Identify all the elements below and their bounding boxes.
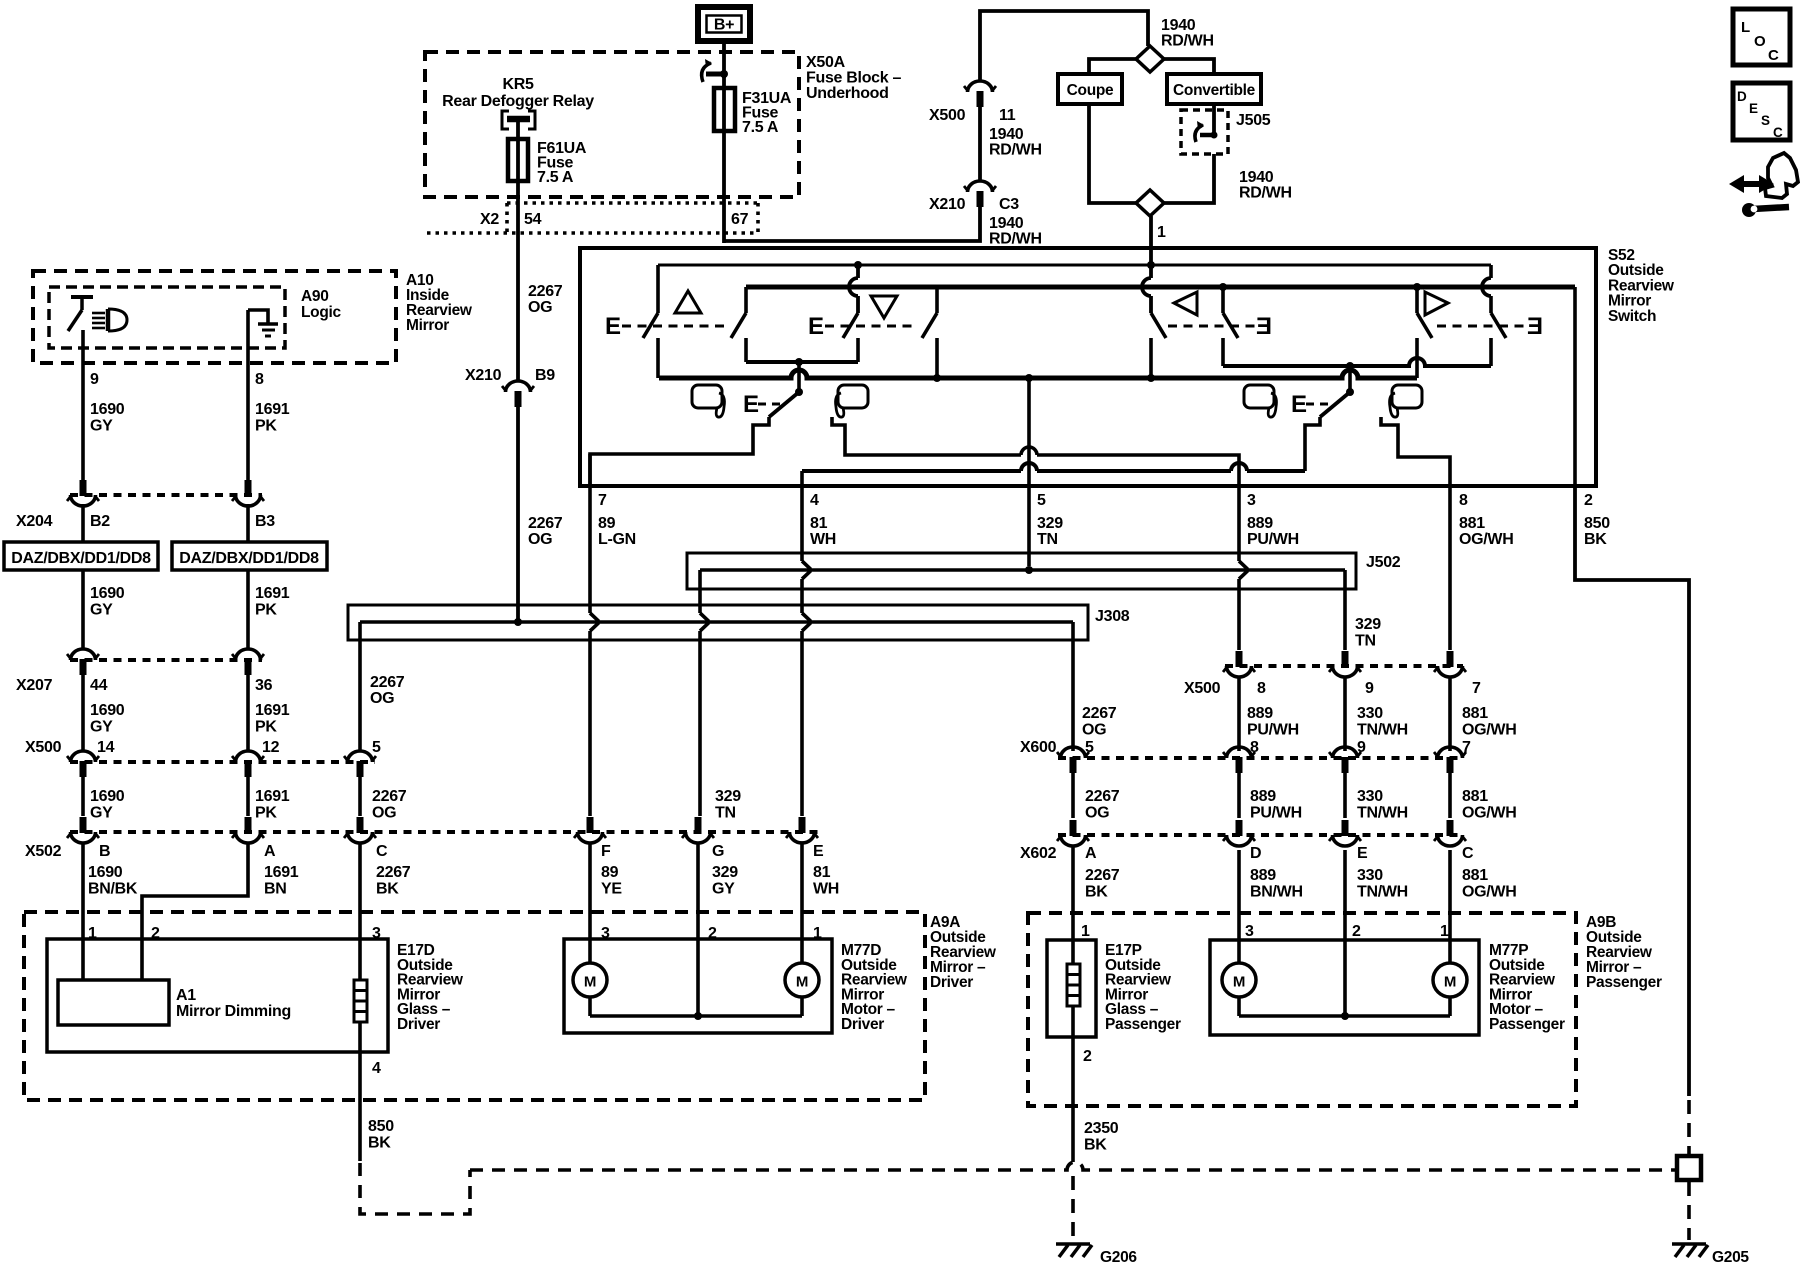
svg-text:GY: GY — [90, 805, 113, 822]
svg-text:E: E — [1749, 101, 1758, 116]
wire: X502 B into mirror glass driver — [81, 843, 85, 980]
wire: diamond to Coupe branch — [1089, 59, 1137, 74]
switch S52 box — [580, 248, 1596, 486]
svg-text:2267: 2267 — [1082, 705, 1117, 722]
mirror glass E17P box — [1047, 940, 1096, 1037]
svg-text:2: 2 — [1083, 1048, 1092, 1065]
svg-text:GY: GY — [90, 418, 113, 435]
connector X502 row — [70, 830, 818, 834]
svg-text:X502: X502 — [25, 843, 62, 860]
triangle right — [1425, 292, 1448, 315]
svg-text:Passenger: Passenger — [1105, 1016, 1181, 1033]
svg-text:KR5: KR5 — [502, 76, 534, 93]
svg-text:7: 7 — [1462, 739, 1471, 756]
svg-text:OG/WH: OG/WH — [1459, 531, 1514, 548]
svg-text:BN/WH: BN/WH — [1250, 884, 1303, 901]
svg-text:RD/WH: RD/WH — [989, 142, 1042, 159]
svg-text:OG/WH: OG/WH — [1462, 884, 1517, 901]
wire 1690 GY below option box — [81, 570, 85, 649]
svg-text:7.5 A: 7.5 A — [742, 119, 779, 136]
svg-text:BK: BK — [1084, 1137, 1107, 1154]
svg-text:1940: 1940 — [1161, 17, 1196, 34]
driver mirror icon left — [692, 385, 722, 408]
wire: A90 pin 8 — [246, 310, 250, 480]
wire: splice J502 right leg 329 TN to X500 9 — [1343, 570, 1347, 650]
fuse block X50A dashed box — [425, 52, 799, 197]
wire 330 TN/WH X600 to X602 — [1343, 773, 1347, 818]
connector X602 row — [1058, 833, 1463, 837]
connector X500 left row — [70, 760, 375, 764]
svg-text:BN/BK: BN/BK — [88, 881, 138, 898]
svg-text:BK: BK — [1085, 884, 1108, 901]
svg-text:1691: 1691 — [255, 788, 290, 805]
svg-text:330: 330 — [1357, 867, 1383, 884]
wire: X502 C into mirror glass driver — [358, 843, 362, 980]
wire: pin 4 down from output line — [800, 471, 804, 486]
svg-text:330: 330 — [1357, 788, 1383, 805]
svg-text:DAZ/DBX/DD1/DD8: DAZ/DBX/DD1/DD8 — [11, 550, 151, 567]
svg-text:1690: 1690 — [90, 702, 125, 719]
wire: B+ feed down to relay/fuse — [722, 40, 726, 78]
wire 889 PU/WH X600 to X602 — [1237, 773, 1241, 818]
svg-text:J505: J505 — [1236, 112, 1271, 129]
svg-text:Passenger: Passenger — [1586, 974, 1662, 991]
legend box LOC — [1733, 9, 1790, 65]
svg-text:A1: A1 — [176, 987, 196, 1004]
svg-text:OG: OG — [1085, 805, 1109, 822]
connector X500 right row — [1225, 664, 1463, 668]
svg-text:1691: 1691 — [255, 401, 290, 418]
diamond junction top — [1136, 46, 1164, 72]
wire: switch pin 2 850 BK to right edge — [1575, 486, 1689, 1096]
passenger up/down common tie bar — [1223, 358, 1491, 366]
svg-text:4: 4 — [372, 1060, 381, 1077]
svg-text:WH: WH — [813, 881, 839, 898]
svg-text:881: 881 — [1462, 788, 1488, 805]
svg-text:OG: OG — [372, 805, 396, 822]
svg-text:2267: 2267 — [372, 788, 407, 805]
svg-text:1691: 1691 — [255, 702, 290, 719]
svg-text:B: B — [99, 843, 110, 860]
motor assembly M77D box — [564, 939, 832, 1033]
svg-text:2: 2 — [1584, 492, 1593, 509]
wire: switch pin 8 down to X500 7 — [1448, 486, 1452, 650]
svg-text:1690: 1690 — [90, 585, 125, 602]
svg-text:7: 7 — [598, 492, 607, 509]
svg-text:C: C — [376, 843, 388, 860]
wire: Coupe down to diamond bottom — [1089, 104, 1137, 203]
motor M left passenger — [1222, 963, 1256, 997]
svg-text:B3: B3 — [255, 513, 275, 530]
svg-text:Switch: Switch — [1608, 308, 1656, 325]
svg-text:1690: 1690 — [90, 788, 125, 805]
wire: Convertible down into splice J505 — [1212, 104, 1216, 137]
wire: X502 E into motor driver pin 1 — [800, 843, 804, 963]
svg-text:X210: X210 — [465, 367, 502, 384]
svg-text:881: 881 — [1462, 705, 1488, 722]
svg-text:329: 329 — [715, 788, 741, 805]
svg-text:OG/WH: OG/WH — [1462, 805, 1517, 822]
wire 881 OG/WH X600 to X602 — [1448, 773, 1452, 818]
connector row X2 dotted box — [507, 201, 758, 205]
connector X204 row — [70, 493, 262, 497]
svg-text:3: 3 — [1245, 923, 1254, 940]
wire: E17D pin 4 850 BK — [358, 1022, 362, 1161]
svg-text:Driver: Driver — [841, 1016, 884, 1033]
svg-text:X600: X600 — [1020, 739, 1057, 756]
svg-text:Driver: Driver — [930, 974, 973, 991]
option box Coupe — [1058, 74, 1122, 104]
svg-text:D: D — [1250, 845, 1261, 862]
svg-text:7: 7 — [1472, 680, 1481, 697]
wire 2267 OG from X2 54 to X210 B9 — [516, 237, 520, 381]
svg-text:67: 67 — [731, 211, 749, 228]
svg-text:2: 2 — [708, 925, 717, 942]
wire: switch pin 7 down to X502 F — [588, 454, 592, 613]
battery feed terminal B+ — [698, 7, 750, 41]
svg-text:2267: 2267 — [1085, 867, 1120, 884]
passenger motor common bus — [1237, 997, 1241, 1016]
E17P heater connector symbol — [1067, 964, 1080, 1006]
svg-text:E: E — [813, 843, 824, 860]
svg-text:1690: 1690 — [88, 864, 123, 881]
svg-text:E: E — [808, 313, 824, 340]
svg-text:2267: 2267 — [1085, 788, 1120, 805]
svg-text:TN/WH: TN/WH — [1357, 805, 1408, 822]
svg-text:F: F — [601, 843, 611, 860]
svg-text:1691: 1691 — [264, 864, 299, 881]
svg-text:1: 1 — [1081, 923, 1090, 940]
svg-text:3: 3 — [601, 925, 610, 942]
svg-text:E: E — [1256, 313, 1272, 340]
wire: splice J308 right leg 2267 OG to X600 — [1071, 622, 1075, 751]
svg-text:X50A: X50A — [806, 54, 846, 71]
svg-text:OG/WH: OG/WH — [1462, 722, 1517, 739]
svg-text:PU/WH: PU/WH — [1247, 722, 1299, 739]
svg-text:2350: 2350 — [1084, 1120, 1119, 1137]
svg-text:889: 889 — [1247, 515, 1273, 532]
svg-text:OG: OG — [1082, 722, 1106, 739]
ground G206 symbol — [1056, 1242, 1090, 1246]
svg-text:M: M — [584, 974, 596, 991]
diamond junction bottom — [1136, 190, 1164, 216]
motor M right driver — [785, 963, 819, 997]
legend arrow and wrench icon — [1736, 181, 1766, 187]
svg-text:PK: PK — [255, 602, 277, 619]
svg-text:5: 5 — [372, 739, 381, 756]
svg-text:G205: G205 — [1712, 1249, 1749, 1266]
svg-text:X210: X210 — [929, 196, 966, 213]
switch cell down: right contact from thick rail — [935, 287, 939, 313]
svg-text:329: 329 — [1037, 515, 1063, 532]
svg-text:DAZ/DBX/DD1/DD8: DAZ/DBX/DD1/DD8 — [179, 550, 319, 567]
dashed ground drop below splice — [1687, 1182, 1691, 1240]
svg-text:X2: X2 — [480, 211, 499, 228]
svg-text:81: 81 — [813, 864, 831, 881]
svg-text:9: 9 — [90, 371, 99, 388]
svg-text:OG: OG — [528, 299, 552, 316]
splice pack J502 internal bus 329 — [700, 568, 1345, 572]
svg-text:Coupe: Coupe — [1067, 82, 1114, 99]
wire: X602 E into motor passenger pin 2 — [1343, 850, 1347, 1016]
svg-text:8: 8 — [1250, 739, 1259, 756]
wire 1691 PK to X500 — [246, 675, 250, 752]
wire: relay KR5 through fuse F61UA to X2 pin 54 — [516, 140, 520, 237]
svg-text:Mirror: Mirror — [406, 317, 449, 334]
fuse F31UA — [714, 88, 735, 131]
svg-text:881: 881 — [1459, 515, 1485, 532]
svg-text:11: 11 — [999, 107, 1016, 124]
passenger selector left contact to pin 4 line — [1305, 417, 1320, 471]
driver selector left contact to pin 7 — [590, 417, 769, 486]
wire 2267 OG X600 to X602 — [1071, 773, 1075, 818]
mirror glass E17D box — [47, 939, 388, 1052]
wire: X502 F into motor driver pin 3 — [588, 843, 592, 963]
wire 1 junction with upper rail — [1147, 261, 1155, 269]
wire: X500 11 up and over to diamond — [980, 11, 1148, 81]
svg-text:E: E — [743, 391, 759, 418]
relay contact hook above fuse F31UA — [706, 72, 726, 77]
svg-text:1940: 1940 — [989, 215, 1024, 232]
label 881 OG/WH — [1448, 676, 1452, 751]
svg-text:GY: GY — [90, 602, 113, 619]
wire: X502 A into mirror glass driver — [142, 843, 248, 980]
switch cell right: right contact from upper rail — [1489, 265, 1493, 278]
svg-text:L: L — [1741, 19, 1750, 36]
wire 1690 GY to X500 — [81, 675, 85, 752]
svg-text:C: C — [1768, 47, 1779, 64]
wire: X204 B3 to option box — [246, 504, 250, 542]
svg-text:X500: X500 — [929, 107, 966, 124]
svg-text:1691: 1691 — [255, 585, 290, 602]
svg-text:89: 89 — [601, 864, 619, 881]
wire: hook to fuse F31UA to X2 pin 67 — [722, 74, 726, 243]
svg-text:YE: YE — [601, 881, 622, 898]
A90 ground icon — [248, 310, 268, 323]
svg-text:2267: 2267 — [370, 674, 405, 691]
wire 2267 OG from B9 to splice J308 — [516, 407, 520, 622]
wire 1691 PK to X502 — [246, 777, 250, 816]
svg-text:O: O — [1754, 33, 1766, 50]
svg-text:8: 8 — [1459, 492, 1468, 509]
wire: 67 elbow right to X210 column — [724, 207, 980, 241]
svg-text:850: 850 — [1584, 515, 1610, 532]
svg-text:5: 5 — [1085, 739, 1094, 756]
svg-text:2267: 2267 — [376, 864, 411, 881]
svg-text:PU/WH: PU/WH — [1247, 531, 1299, 548]
triangle down — [871, 296, 897, 318]
connector X207 row — [70, 658, 262, 662]
passenger mirror icon left — [1244, 385, 1274, 408]
svg-text:J502: J502 — [1366, 554, 1401, 571]
wire: X602 C into motor passenger pin 1 — [1448, 850, 1452, 963]
svg-text:BK: BK — [376, 881, 399, 898]
wire: X602 A into mirror glass passenger — [1071, 846, 1075, 964]
svg-text:PK: PK — [255, 805, 277, 822]
mirror dimming element A1 — [58, 980, 169, 1025]
wire: X502 G into motor driver pin 2 — [696, 843, 700, 1016]
wire: diamond to Convertible branch — [1164, 59, 1214, 74]
svg-text:1: 1 — [813, 925, 822, 942]
svg-text:850: 850 — [368, 1118, 394, 1135]
svg-text:BK: BK — [368, 1135, 391, 1152]
wire: switch pin 5 from common rail down to splice J502 — [1025, 374, 1033, 382]
inline splice J505 dashed box — [1181, 110, 1228, 154]
svg-text:12: 12 — [262, 739, 280, 756]
svg-text:889: 889 — [1247, 705, 1273, 722]
connector X600 row — [1058, 756, 1463, 760]
svg-text:X500: X500 — [1184, 680, 1221, 697]
svg-text:Fuse Block –: Fuse Block – — [806, 70, 902, 87]
svg-text:E: E — [1527, 313, 1543, 340]
svg-text:X207: X207 — [16, 677, 53, 694]
svg-text:54: 54 — [524, 211, 542, 228]
svg-text:Rear Defogger Relay: Rear Defogger Relay — [442, 93, 594, 110]
label 330 TN/WH — [1343, 676, 1347, 751]
svg-text:1690: 1690 — [90, 401, 125, 418]
svg-text:J308: J308 — [1095, 608, 1130, 625]
svg-text:1940: 1940 — [989, 126, 1024, 143]
switch cell up: left contact — [656, 265, 660, 313]
driver selector blade — [769, 392, 799, 417]
svg-text:GY: GY — [712, 881, 735, 898]
svg-text:8: 8 — [1257, 680, 1266, 697]
svg-text:329: 329 — [1355, 616, 1381, 633]
svg-text:A90: A90 — [301, 288, 329, 305]
triangle left — [1174, 292, 1197, 315]
switch common bottom rail — [659, 370, 1417, 378]
splice pack J308 internal bus 2267 — [360, 620, 1073, 624]
splice J505 hook symbol — [1200, 133, 1216, 138]
svg-text:7.5 A: 7.5 A — [537, 169, 574, 186]
svg-text:C: C — [1462, 845, 1474, 862]
splice pack J502 box — [687, 553, 1356, 589]
connector X210 pin C3 — [968, 181, 993, 192]
svg-text:889: 889 — [1250, 788, 1276, 805]
switch cell down: left contact from upper rail — [854, 261, 862, 269]
dashed 850 BK ground path from driver mirror — [360, 1163, 470, 1214]
wire: switch pin 3 down to X500 8 — [1237, 486, 1241, 561]
svg-text:D: D — [1737, 89, 1747, 104]
wire 1 from diamond into switch S52 — [1149, 216, 1153, 267]
switch cell right: left contact from thick rail — [1413, 283, 1421, 291]
svg-text:5: 5 — [1037, 492, 1046, 509]
option box DAZ/DBX/DD1/DD8 left — [4, 542, 158, 570]
svg-text:PU/WH: PU/WH — [1250, 805, 1302, 822]
E17D heater connector symbol — [354, 980, 367, 1022]
svg-text:C: C — [1773, 125, 1783, 140]
passenger mirror icon right — [1392, 385, 1422, 408]
svg-text:OG: OG — [370, 690, 394, 707]
svg-text:Mirror Dimming: Mirror Dimming — [176, 1003, 291, 1020]
passenger selector blade — [1320, 392, 1350, 417]
svg-text:9: 9 — [1365, 680, 1374, 697]
svg-text:TN/WH: TN/WH — [1357, 884, 1408, 901]
svg-text:81: 81 — [810, 515, 828, 532]
svg-text:1: 1 — [1157, 224, 1166, 241]
svg-text:330: 330 — [1357, 705, 1383, 722]
wire: X602 D into motor passenger pin 3 — [1237, 850, 1241, 963]
svg-text:TN: TN — [1037, 531, 1058, 548]
connector X210 pin B9 — [506, 381, 531, 392]
svg-text:B+: B+ — [714, 17, 734, 34]
svg-text:X204: X204 — [16, 513, 53, 530]
switch feed rail upper — [658, 264, 1491, 267]
svg-text:BK: BK — [1584, 531, 1607, 548]
svg-text:329: 329 — [712, 864, 738, 881]
svg-text:Underhood: Underhood — [806, 85, 889, 102]
dashed ground lead to G205 — [1687, 1100, 1691, 1154]
switch cell up: right contact from thick rail — [744, 287, 748, 313]
switch feed rail lower thick — [746, 285, 1575, 290]
svg-text:A: A — [1085, 845, 1097, 862]
driver outside mirror A9A dashed box — [24, 912, 925, 1100]
svg-text:8: 8 — [255, 371, 264, 388]
driver selector pivot wire — [797, 362, 801, 392]
switch cell left: right contact from thick rail — [1219, 283, 1227, 291]
switch cell right: E linkage mirrored — [1437, 325, 1526, 328]
svg-text:E: E — [1291, 391, 1307, 418]
svg-text:G206: G206 — [1100, 1249, 1137, 1266]
splice pack J308 box — [348, 605, 1088, 640]
wire 2267 OG to X502 — [358, 777, 362, 816]
svg-text:1: 1 — [1440, 923, 1449, 940]
svg-text:TN: TN — [1355, 633, 1376, 650]
driver selector right contact to pin 3 — [832, 417, 1021, 455]
svg-text:2: 2 — [1352, 923, 1361, 940]
wire: E17P pin 2 2350 BK — [1071, 1006, 1075, 1037]
svg-text:44: 44 — [90, 677, 108, 694]
svg-text:2267: 2267 — [528, 283, 563, 300]
svg-text:M: M — [796, 974, 808, 991]
wire: switch pin 4 down to X502 E — [800, 486, 804, 561]
svg-text:G: G — [712, 843, 724, 860]
svg-text:RD/WH: RD/WH — [989, 231, 1042, 248]
svg-text:E: E — [605, 313, 621, 340]
fuse F61UA — [508, 139, 528, 181]
svg-text:4: 4 — [810, 492, 819, 509]
ground G205 symbol — [1672, 1242, 1706, 1246]
svg-text:2267: 2267 — [528, 515, 563, 532]
svg-text:X500: X500 — [25, 739, 62, 756]
logic module A90 dashed box — [49, 287, 285, 348]
ground splice box at G205 — [1677, 1156, 1701, 1180]
svg-text:BN: BN — [264, 881, 287, 898]
svg-text:WH: WH — [810, 531, 836, 548]
svg-text:X602: X602 — [1020, 845, 1057, 862]
relay KR5 contact symbol — [502, 111, 509, 129]
wire 1691 PK below option box — [246, 570, 250, 649]
svg-text:89: 89 — [598, 515, 616, 532]
connector X500 pin 11 — [968, 81, 993, 92]
motor assembly M77P box — [1210, 940, 1479, 1035]
wire: splice J308 left leg down to X500 5 — [358, 622, 362, 751]
svg-text:RD/WH: RD/WH — [1161, 33, 1214, 50]
passenger selector pivot wire — [1348, 366, 1352, 392]
motor M left driver — [573, 963, 607, 997]
label 889 PU/WH — [1237, 676, 1241, 751]
svg-text:L-GN: L-GN — [598, 531, 636, 548]
svg-text:RD/WH: RD/WH — [1239, 185, 1292, 202]
inside rearview mirror A10 dashed box — [33, 271, 396, 363]
triangle up — [675, 291, 701, 313]
svg-text:B9: B9 — [535, 367, 555, 384]
wire: pin 2 ground from thick rail — [1573, 287, 1577, 486]
svg-text:PK: PK — [255, 719, 277, 736]
svg-text:A: A — [264, 843, 276, 860]
svg-text:Convertible: Convertible — [1173, 82, 1256, 99]
wire: A90 pin 9 — [81, 330, 85, 480]
